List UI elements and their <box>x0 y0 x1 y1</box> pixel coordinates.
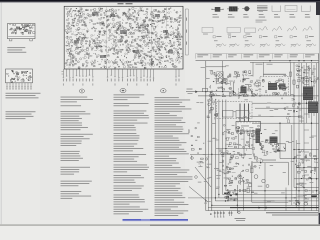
dense component group bottom-left <box>224 191 238 202</box>
wire: bottom bus y210.6 <box>206 210 319 212</box>
main PCB component clutter <box>65 7 183 68</box>
transistor Q12 <box>238 175 242 179</box>
wire vertical x280 <box>279 123 281 158</box>
PCB darker IC blobs <box>92 12 98 16</box>
IC U1 bottom pins <box>238 131 259 134</box>
watermark URL <box>123 219 189 221</box>
hatched block mid <box>270 137 278 144</box>
module A inner block 1 <box>223 111 233 118</box>
wire: y197.9 left stub <box>188 197 219 199</box>
component cluster: transistors Q1 Q2 <box>252 81 261 96</box>
legend row 2: script signature marks <box>258 27 312 32</box>
small PCB bottom view (solder side) <box>6 69 33 83</box>
frame left components: resistor R41 <box>251 168 253 173</box>
thin vertical ruler strip <box>184 9 186 55</box>
legend row 3 symbol groups <box>213 36 314 42</box>
junction dots <box>205 60 317 208</box>
wire: upper-left branch <box>206 66 226 68</box>
wire: vertical x222.7 <box>222 61 224 92</box>
wire rung y158.5 <box>280 158 319 160</box>
module A inner block 2 <box>236 111 249 118</box>
wire rung y103.2 <box>252 102 319 104</box>
wire: drop x263.5 <box>263 62 265 76</box>
wire rung y178.8 <box>294 178 319 180</box>
wire rung y167.5 <box>296 167 319 169</box>
wire: top horizontal bus second <box>250 61 319 63</box>
frame resistor R42 <box>247 188 249 192</box>
switch lever diagonal 2 <box>189 187 208 203</box>
legend row 1: resistor pictorial <box>212 8 224 10</box>
component cluster: top right bias network <box>296 65 319 88</box>
caption: Ansicht von der Bestueckungsseite text block <box>6 92 41 95</box>
legend row 1 sub-label <box>256 19 267 22</box>
wire: drop x253 <box>252 62 254 76</box>
input label smudges <box>187 88 193 91</box>
PCB bottom view clutter <box>7 70 32 82</box>
wire: audio input line with arrow <box>186 91 234 93</box>
bottom scan edge band <box>0 224 320 226</box>
potentiometer circle P1 <box>191 157 194 160</box>
wire rung y108.2 <box>255 107 310 109</box>
right edge seam <box>318 11 320 226</box>
section number 1 circle <box>161 89 167 93</box>
parts list column 2 <box>114 94 150 214</box>
component cluster: preamp stage <box>221 124 264 172</box>
potentiometer circle P2 <box>195 176 198 179</box>
open frame rectangle mid-bottom <box>252 162 288 202</box>
PCB top view bottom rail <box>8 35 34 37</box>
legend row 2: socket outline 3 <box>245 28 256 32</box>
bottom right box with label <box>305 195 319 198</box>
left hatched cap block <box>256 129 261 144</box>
module B label <box>263 74 286 75</box>
resistor on x294 <box>293 80 295 84</box>
component cluster: module B parts <box>262 79 287 95</box>
light box mid <box>277 144 286 151</box>
IC U1 label <box>241 125 249 128</box>
connector caption line 2 <box>236 219 245 222</box>
transformer T1 frame <box>217 72 224 84</box>
wire: thin bus segment y207.6 left <box>208 207 230 209</box>
labels above module B <box>256 63 263 66</box>
component cluster: caps above frame <box>275 146 285 151</box>
right bus vertical wires <box>292 63 317 211</box>
wire: right boundary vertical <box>318 53 320 215</box>
lead labels row 1 <box>63 79 180 82</box>
legend row 2: socket outline 1 <box>202 27 213 32</box>
legend row 1: module outline 2 <box>285 6 297 12</box>
socket symbol J2 <box>238 211 240 213</box>
wire: vertical x243.6 <box>243 180 245 211</box>
connector caption line 1 <box>235 217 246 220</box>
component cluster: driver stage <box>262 139 279 155</box>
caption: Bestueckungsseite text block <box>7 46 25 49</box>
wire: horizontal y154.3 <box>190 153 252 155</box>
switch lever diagonal <box>195 167 211 187</box>
PCB lead-out pins below board <box>63 69 180 79</box>
caption: Gedruckte Schaltung text block <box>6 110 36 113</box>
legend row 1: choke pictorial <box>227 8 239 10</box>
wire rung y123.2 <box>252 122 319 124</box>
wire: vertical x265 <box>264 163 266 211</box>
frame transistor Q8 <box>254 175 258 179</box>
right bus ladder rungs <box>299 67 317 200</box>
legend row 2: socket outline 2 <box>227 27 240 32</box>
resistor on x290.5 <box>289 72 291 76</box>
op-amp IC U1 box <box>236 122 261 132</box>
legend row 1: capacitor pictorial <box>242 8 250 10</box>
wire vertical x294 <box>293 62 295 187</box>
top scan edge band <box>0 0 320 2</box>
left edge seam <box>0 3 3 225</box>
wire: vertical trunk x208.6 <box>208 100 210 211</box>
component cluster: output stage right <box>295 150 320 197</box>
ticks left of PCB <box>62 71 64 73</box>
schematic header cell row <box>196 54 319 59</box>
IC U1 bus: triple vertical thick <box>239 104 241 122</box>
section number 13 circle <box>120 88 126 92</box>
legend row 1: bracket outline 1 <box>272 6 281 12</box>
transistor Q10 <box>296 202 299 205</box>
wire: vertical x237.3 <box>236 185 238 213</box>
dashed module box A <box>217 102 253 119</box>
section number 2 circle <box>79 89 84 93</box>
wire: thick signal bus y207.6 <box>230 207 319 209</box>
component cluster: bottom interconnect parts <box>289 197 308 205</box>
ruler strip marks <box>185 18 188 45</box>
PCB bottom view connector pins <box>6 83 31 90</box>
wire: vertical x233.5 <box>233 82 235 97</box>
tiny L label <box>210 213 212 214</box>
component cluster: oscillator stage <box>224 170 251 192</box>
PCB top view feet <box>9 39 12 41</box>
component cluster: mid right rung parts <box>281 98 302 123</box>
transformer T1 windings <box>218 73 222 77</box>
module B IC hatched block 1 <box>268 83 277 90</box>
legend row 1: page edge mark <box>316 2 320 15</box>
legend row 1 labels <box>213 14 311 18</box>
PCB top view component clutter <box>9 24 35 35</box>
caption text line under schematic 1 <box>266 212 318 213</box>
wire: horizontal y148.5 <box>216 148 252 150</box>
module B IC hatched block 2 <box>279 84 286 90</box>
wire rung y116.5 <box>250 116 300 118</box>
dashed module box B <box>260 77 289 96</box>
wire: top horizontal bus <box>196 60 319 62</box>
wire: vertical trunk x211.8 <box>211 96 213 211</box>
bottom connector pins row <box>214 211 225 218</box>
nested bus corners bottom-left <box>226 100 319 191</box>
wire rung y187.5 <box>294 187 319 189</box>
legend row 1: laminated core pictorial <box>257 5 268 7</box>
transistor Q7 <box>266 185 269 188</box>
transistor Q13 <box>248 183 252 187</box>
legend row 1: bracket outline 3 <box>301 6 310 12</box>
frame label <box>264 199 275 202</box>
parts list column 3 <box>155 97 193 216</box>
legend row 4 script text groups <box>216 44 316 48</box>
small PCB top view (component side) <box>8 24 36 39</box>
legend row 2 labels <box>203 33 250 36</box>
level box on input line <box>203 88 208 91</box>
caption text line under schematic 2 <box>272 215 318 216</box>
parts list column 1 <box>61 97 93 199</box>
right side hatched power block 2 <box>308 102 318 114</box>
wire: mid horizontal bus y95.9 <box>198 95 319 97</box>
pin pair right <box>229 211 233 216</box>
tiny label above main PCB <box>118 3 124 4</box>
lead labels row 2 sparse <box>63 83 177 85</box>
wire: left vertical trunk <box>205 61 207 211</box>
transistor Q11 <box>304 202 307 205</box>
right edge dark block top <box>317 2 320 12</box>
main PCB layout board outline <box>64 6 183 69</box>
wire vertical x290.5 <box>290 62 292 96</box>
IC U1 pin drop wires <box>238 134 240 149</box>
frame capacitor C31 <box>251 190 254 192</box>
component cluster: left controls <box>188 127 209 166</box>
small hatched IC upper cluster <box>241 87 247 94</box>
component cluster: input stage R/C group <box>209 71 253 99</box>
transistor Q6 <box>262 179 266 183</box>
IC U1 inner pin ticks <box>238 122 259 132</box>
right side hatched power block 1 <box>303 87 313 101</box>
frame top label <box>262 159 276 162</box>
component cluster: trunk taps <box>207 98 218 120</box>
scattered component value labels <box>196 65 318 203</box>
wire rung y149.5 <box>294 149 319 151</box>
wire: vertical x286 <box>285 188 287 211</box>
PCB internal divider lines <box>106 7 108 69</box>
